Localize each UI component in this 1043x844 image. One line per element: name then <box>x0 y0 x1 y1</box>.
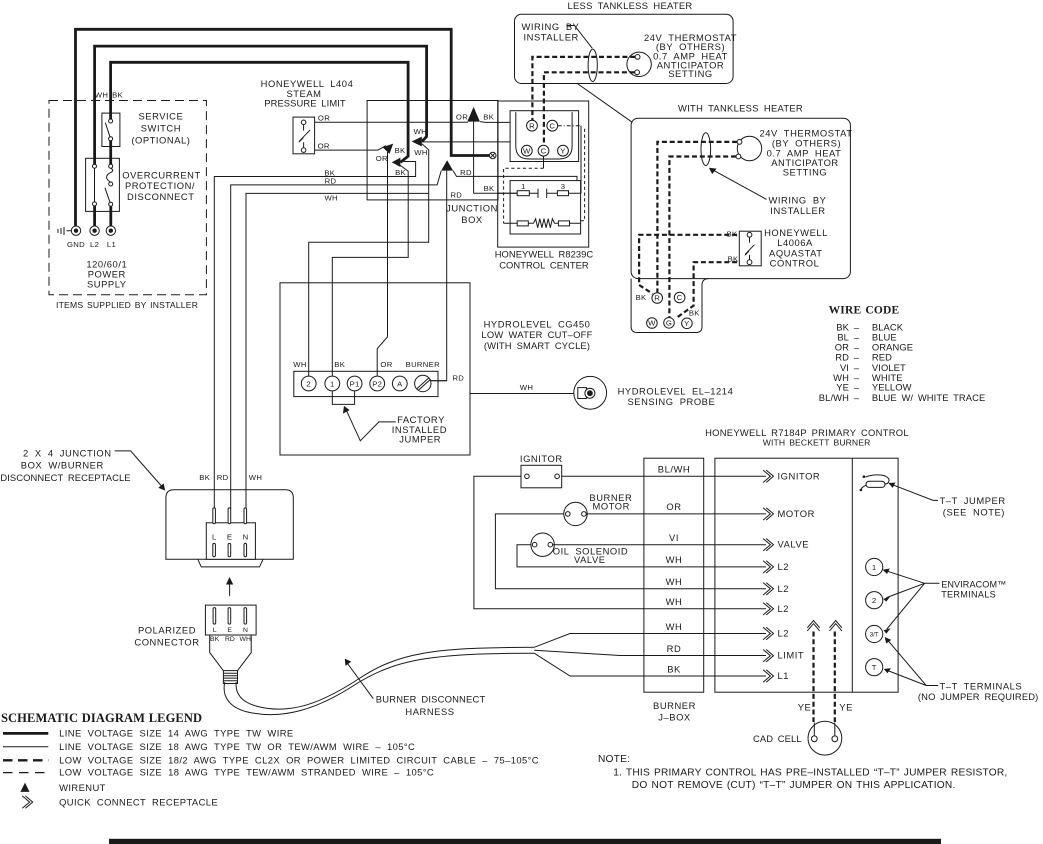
R8239C lower sub-box <box>510 181 580 234</box>
svg-text:C: C <box>549 121 555 130</box>
svg-text:RD: RD <box>325 177 337 186</box>
dashed internal loop left <box>504 168 544 223</box>
svg-text:L2: L2 <box>778 583 790 594</box>
svg-text:(OPTIONAL): (OPTIONAL) <box>131 134 190 145</box>
svg-text:MOTOR: MOTOR <box>778 508 815 519</box>
svg-text:LINE VOLTAGE SIZE 14 AWG TYPE: LINE VOLTAGE SIZE 14 AWG TYPE TW WIRE <box>59 727 294 738</box>
svg-text:Y: Y <box>684 319 689 328</box>
svg-text:BK: BK <box>689 308 700 317</box>
wire BK thick between boxes <box>109 141 112 165</box>
svg-text:BK: BK <box>334 360 345 369</box>
svg-text:SERVICE: SERVICE <box>138 111 183 122</box>
mounting flange <box>198 559 263 567</box>
aquastat switch symbol <box>745 237 755 259</box>
callout arrow to 2x4 box <box>115 451 162 486</box>
terminal Y <box>558 145 569 156</box>
svg-text:2: 2 <box>306 380 311 389</box>
svg-text:OR: OR <box>666 501 681 512</box>
connector taper <box>210 635 252 671</box>
T-T jumper callout <box>892 484 939 500</box>
svg-text:BL/WH: BL/WH <box>819 392 849 403</box>
harness callout arrow <box>348 664 374 699</box>
wire BK to R8239C lower <box>474 192 518 194</box>
thermostat circle <box>737 136 761 160</box>
wire OR upper from L404 <box>315 121 468 123</box>
svg-text:–: – <box>854 392 860 403</box>
aquastat L4006A box <box>739 231 761 266</box>
enviracom terminal 2 <box>866 592 883 609</box>
terminal C upper <box>547 120 558 131</box>
svg-text:QUICK CONNECT RECEPTACLE: QUICK CONNECT RECEPTACLE <box>59 796 218 807</box>
svg-text:P2: P2 <box>372 379 382 388</box>
svg-text:BK: BK <box>483 113 494 122</box>
wire BK to R8239C upper <box>480 121 510 124</box>
wire OR lower from L404 <box>315 146 386 151</box>
YE dashed wire right <box>834 632 836 723</box>
wire motor to WH row2 <box>495 514 766 589</box>
wirenut OR (left) <box>383 144 394 154</box>
T-T terminals callout <box>887 639 938 685</box>
svg-text:BK: BK <box>210 636 220 643</box>
svg-text:WH: WH <box>520 383 533 392</box>
terminal R <box>527 120 538 131</box>
thermostat terminal upper <box>635 55 640 60</box>
wire RD down right side to CG450 burner screw <box>431 171 447 381</box>
strain relief ribs <box>223 671 237 684</box>
wire BK thin down to CG450 terminal 1 <box>332 165 408 376</box>
svg-text:POLARIZED: POLARIZED <box>138 624 196 635</box>
svg-text:RD: RD <box>450 191 462 200</box>
svg-text:(NO JUMPER REQUIRED): (NO JUMPER REQUIRED) <box>918 691 1039 702</box>
svg-text:SENSING PROBE: SENSING PROBE <box>628 396 716 407</box>
svg-text:LINE VOLTAGE SIZE 18 AWG TYPE: LINE VOLTAGE SIZE 18 AWG TYPE TW OR TEW/… <box>59 741 415 752</box>
callout line to oval <box>567 26 593 49</box>
svg-text:1: 1 <box>872 563 877 572</box>
with-tankless rounded box with tab <box>631 118 850 278</box>
svg-text:PRESSURE LIMIT: PRESSURE LIMIT <box>264 98 346 109</box>
legend thick line sample <box>3 732 48 735</box>
svg-text:VALVE: VALVE <box>778 539 810 550</box>
svg-text:WH: WH <box>414 127 427 136</box>
svg-text:RED: RED <box>872 352 892 363</box>
less-tankless rounded box <box>515 14 734 83</box>
terminal R <box>652 293 663 304</box>
wire BL/WH row <box>562 475 766 477</box>
wirenut OR/BK (top) <box>467 107 480 122</box>
svg-text:WIRE CODE: WIRE CODE <box>829 305 900 317</box>
svg-text:YE: YE <box>839 702 853 713</box>
svg-text:BLUE W/ WHITE TRACE: BLUE W/ WHITE TRACE <box>872 392 985 403</box>
svg-text:CONTROL: CONTROL <box>770 258 820 269</box>
svg-text:WH: WH <box>95 90 108 99</box>
svg-text:L2: L2 <box>778 628 790 639</box>
wirenut BK <box>392 158 401 167</box>
resistor lower-left <box>517 221 528 226</box>
svg-text:N: N <box>243 533 249 542</box>
terminal row line <box>498 192 581 194</box>
terminal W <box>521 145 532 156</box>
svg-text:LOW WATER CUT–OFF: LOW WATER CUT–OFF <box>481 329 592 340</box>
svg-text:W: W <box>648 319 656 328</box>
svg-text:BK: BK <box>636 293 647 302</box>
capacitor <box>538 189 547 198</box>
harness fan to WH row4 <box>534 634 766 648</box>
svg-text:LOW VOLTAGE SIZE 18 AWG TYPE T: LOW VOLTAGE SIZE 18 AWG TYPE TEW/AWM STR… <box>59 767 434 778</box>
svg-text:WH: WH <box>293 360 306 369</box>
ground symbol <box>58 227 71 235</box>
sensing probe symbol <box>574 376 607 409</box>
svg-text:PROTECTION/: PROTECTION/ <box>125 180 195 191</box>
bottom separator bar <box>109 839 941 844</box>
wire BK thick upper run <box>111 62 409 162</box>
svg-text:3: 3 <box>561 182 566 191</box>
svg-text:L: L <box>213 627 217 634</box>
terminal W <box>647 318 658 329</box>
factory jumper bracket <box>332 391 354 404</box>
legend texts <box>59 727 539 807</box>
harness cable lower line <box>224 653 534 714</box>
R8239C upper terminal sub-box <box>510 111 578 162</box>
svg-text:L1: L1 <box>778 670 790 681</box>
svg-text:WITH BECKETT BURNER: WITH BECKETT BURNER <box>763 437 871 447</box>
svg-text:1. THIS PRIMARY CONTROL HAS PR: 1. THIS PRIMARY CONTROL HAS PRE–INSTALLE… <box>613 767 1007 778</box>
dashed internal loop right <box>581 129 585 221</box>
svg-text:BK: BK <box>667 663 681 674</box>
wire C lower stub <box>543 156 545 168</box>
terminal 1 <box>325 376 340 391</box>
wire BK thick L1 to overcurrent <box>109 206 112 227</box>
svg-text:NOTE:: NOTE: <box>598 754 630 765</box>
harness cable upper line <box>236 647 534 709</box>
svg-text:(WITH SMART CYCLE): (WITH SMART CYCLE) <box>484 340 590 351</box>
svg-text:CONNECTOR: CONNECTOR <box>134 636 199 647</box>
svg-text:HONEYWELL R8239C: HONEYWELL R8239C <box>495 249 594 260</box>
svg-text:N: N <box>243 627 248 634</box>
svg-text:T–T JUMPER: T–T JUMPER <box>940 495 1006 506</box>
wire VI row <box>553 544 766 546</box>
wire from wirenut down to BK lower <box>473 122 475 194</box>
overcurrent protection box <box>86 158 120 211</box>
svg-text:SUPPLY: SUPPLY <box>87 278 127 289</box>
quick connect up-chevrons <box>807 621 819 631</box>
thermostat terminal upper <box>737 140 742 145</box>
T-T jumper icon <box>865 475 889 484</box>
svg-text:BURNER: BURNER <box>653 700 696 711</box>
inset divider diagonal <box>577 84 632 123</box>
svg-text:CAD CELL: CAD CELL <box>753 733 802 744</box>
svg-text:A: A <box>397 380 403 389</box>
svg-text:SETTING: SETTING <box>668 68 712 79</box>
dashed aquastat wire to R <box>639 235 737 294</box>
note text <box>598 754 1007 791</box>
svg-text:OR: OR <box>456 113 468 122</box>
svg-text:YE: YE <box>798 702 812 713</box>
coil <box>534 219 555 228</box>
thermostat terminal lower <box>635 70 640 75</box>
wire WH thin to R8239C <box>422 141 510 143</box>
wire WH to probe <box>470 393 578 395</box>
svg-text:OR: OR <box>318 141 330 150</box>
dashed aquastat wire to G <box>676 262 737 318</box>
svg-text:RD: RD <box>460 168 472 177</box>
resistor 3 <box>557 191 568 196</box>
svg-text:G: G <box>666 318 672 327</box>
YE dashed wire left <box>812 632 814 723</box>
pressure limit L404 box <box>293 117 315 154</box>
terminal L2 <box>90 226 99 235</box>
service switch blade <box>105 123 110 137</box>
harness fan to BK row <box>534 653 766 676</box>
svg-text:LOW VOLTAGE SIZE 18/2 AWG TYPE: LOW VOLTAGE SIZE 18/2 AWG TYPE CL2X OR P… <box>59 754 539 765</box>
j-box wire labels <box>658 464 690 675</box>
svg-text:HYDROLEVEL EL–1214: HYDROLEVEL EL–1214 <box>618 385 734 396</box>
wire RD to burner screw <box>431 380 447 382</box>
terminal P1 <box>347 376 362 391</box>
overcurrent left pole <box>93 164 97 168</box>
svg-text:INSTALLER: INSTALLER <box>524 31 579 42</box>
terminal tab of with-tankless box <box>631 279 709 333</box>
internal wire down to terminal 3 <box>580 126 582 194</box>
wire OR thin down to CG450 P2 <box>377 152 387 376</box>
svg-text:BK: BK <box>199 473 210 482</box>
wirenut RD <box>441 160 453 170</box>
svg-text:LESS TANKLESS HEATER: LESS TANKLESS HEATER <box>567 0 692 11</box>
svg-text:WITH TANKLESS HEATER: WITH TANKLESS HEATER <box>678 103 803 114</box>
terminal A <box>392 376 407 391</box>
svg-text:GND: GND <box>67 240 85 249</box>
wire BK thin staple to 2x4 box <box>214 162 415 510</box>
svg-text:BOX W/BURNER: BOX W/BURNER <box>21 460 104 471</box>
terminal L1 <box>106 226 115 235</box>
polarized connector body <box>205 605 256 635</box>
service switch box <box>102 113 120 146</box>
terminal C <box>674 292 685 303</box>
field-wiring oval <box>701 133 711 166</box>
svg-text:L2: L2 <box>90 240 99 249</box>
burner motor circle <box>564 502 587 525</box>
svg-text:WH: WH <box>240 636 251 643</box>
svg-text:2: 2 <box>872 596 877 605</box>
wire WH thin to 2x4 box <box>246 193 429 509</box>
terminal G <box>664 318 675 329</box>
svg-text:E: E <box>227 627 232 634</box>
svg-text:SWITCH: SWITCH <box>141 123 181 134</box>
terminal 2 <box>301 376 316 391</box>
svg-text:RD: RD <box>452 373 464 382</box>
terminal 3/T <box>866 625 883 642</box>
service switch contacts <box>109 119 113 123</box>
svg-text:WH: WH <box>666 621 683 632</box>
wire solenoid to WH row1 <box>517 545 766 567</box>
svg-text:IGNITOR: IGNITOR <box>520 453 563 464</box>
svg-text:VALVE: VALVE <box>574 554 606 565</box>
callout arrow to oval <box>714 170 767 199</box>
svg-text:OR: OR <box>376 154 388 163</box>
terminal GND <box>71 226 80 235</box>
field-wiring oval <box>588 49 597 81</box>
terminal P2 <box>370 376 385 391</box>
svg-text:WH: WH <box>666 596 683 607</box>
lower row line <box>504 222 581 224</box>
svg-text:SETTING: SETTING <box>783 166 827 177</box>
wirenut WH <box>412 137 422 147</box>
svg-text:(SEE NOTE): (SEE NOTE) <box>943 506 1005 517</box>
legend thin dashed sample <box>3 772 48 774</box>
dash-dot from C to internal node <box>558 125 581 127</box>
svg-text:OVERCURRENT: OVERCURRENT <box>122 170 200 181</box>
svg-text:RD: RD <box>835 352 849 363</box>
svg-text:L1: L1 <box>107 240 116 249</box>
resistor lower-right <box>558 221 569 226</box>
svg-text:HYDROLEVEL CG450: HYDROLEVEL CG450 <box>484 318 591 329</box>
wire GND thick <box>76 29 490 227</box>
upper prongs <box>213 508 216 524</box>
legend quick connect symbol <box>22 796 32 808</box>
dashed wire to G <box>669 157 736 318</box>
overcurrent right pole breaker <box>109 164 113 168</box>
svg-text:WH: WH <box>249 473 262 482</box>
svg-text:TERMINALS: TERMINALS <box>941 589 996 599</box>
svg-text:WIRENUT: WIRENUT <box>59 782 106 793</box>
svg-text:RD: RD <box>217 473 229 482</box>
svg-text:LIMIT: LIMIT <box>778 650 805 661</box>
svg-text:L2: L2 <box>778 603 790 614</box>
svg-text:INSTALLER: INSTALLER <box>770 205 825 216</box>
svg-text:1: 1 <box>330 380 335 389</box>
svg-text:L: L <box>212 533 217 542</box>
svg-text:E: E <box>227 533 232 542</box>
terminal T <box>866 659 883 676</box>
svg-text:1: 1 <box>521 182 526 191</box>
enviracom terminal 1 <box>866 558 883 575</box>
svg-text:–: – <box>854 352 860 363</box>
oil solenoid circle <box>531 533 554 556</box>
lower prongs <box>213 543 216 556</box>
CG450 low water cut-off box <box>280 283 470 455</box>
svg-text:2 X 4 JUNCTION: 2 X 4 JUNCTION <box>23 447 112 458</box>
svg-text:BK: BK <box>395 168 406 177</box>
dashed wire to R <box>532 57 635 120</box>
crossed-circle connector <box>489 152 496 159</box>
svg-text:W: W <box>523 146 531 155</box>
dashed wire to C <box>544 72 635 145</box>
svg-text:OR: OR <box>380 360 392 369</box>
receptacle block <box>206 523 255 560</box>
terminal C lower <box>538 145 549 156</box>
cad cell circle <box>808 721 842 755</box>
svg-text:P1: P1 <box>350 379 360 388</box>
svg-text:ITEMS SUPPLIED BY INSTALLER: ITEMS SUPPLIED BY INSTALLER <box>56 300 198 310</box>
svg-text:WH: WH <box>666 554 683 565</box>
svg-text:BK: BK <box>112 90 123 99</box>
ignitor box <box>521 465 562 488</box>
L404 switch symbol <box>299 125 310 148</box>
thermostat circle <box>627 52 651 76</box>
svg-text:OR: OR <box>318 113 330 122</box>
dashed wire to R <box>657 142 737 293</box>
svg-text:WH: WH <box>414 148 427 157</box>
wire code entries <box>819 321 986 403</box>
wire ignitor to WH row3 <box>474 476 766 609</box>
R7184P main box <box>715 458 898 692</box>
connector slots <box>213 608 216 625</box>
svg-text:BK: BK <box>395 146 406 155</box>
harness fan to RD row <box>534 650 766 655</box>
terminal Y <box>682 318 693 329</box>
wire WH thick upper run <box>95 46 427 164</box>
items-supplied-by-installer dashed box <box>49 101 206 295</box>
svg-text:VI: VI <box>669 532 679 543</box>
svg-text:C: C <box>677 293 683 302</box>
svg-text:J–BOX: J–BOX <box>658 712 691 723</box>
svg-text:HARNESS: HARNESS <box>405 706 454 717</box>
svg-text:IGNITOR: IGNITOR <box>778 470 821 481</box>
resistor 1 <box>517 191 529 196</box>
jumper callout leader <box>347 411 396 441</box>
svg-text:T: T <box>872 663 877 672</box>
svg-text:ENVIRACOM™: ENVIRACOM™ <box>941 580 1006 590</box>
svg-text:BURNER DISCONNECT: BURNER DISCONNECT <box>376 693 486 704</box>
wire RD thin to R8239C <box>453 171 577 181</box>
svg-text:JUNCTION: JUNCTION <box>446 203 498 214</box>
legend thick dashed sample <box>3 759 48 761</box>
terminal strip <box>294 371 438 396</box>
svg-text:3/T: 3/T <box>870 632 879 639</box>
svg-text:BK: BK <box>484 184 495 193</box>
L404 contacts <box>301 120 306 125</box>
svg-text:MOTOR: MOTOR <box>593 500 630 511</box>
legend wirenut symbol <box>20 783 29 792</box>
wire OR row <box>586 513 766 515</box>
svg-text:WH: WH <box>666 576 683 587</box>
svg-text:L2: L2 <box>778 561 790 572</box>
svg-text:BURNER: BURNER <box>406 360 440 369</box>
svg-text:R: R <box>529 121 535 130</box>
svg-text:JUMPER: JUMPER <box>399 434 441 445</box>
svg-text:BL/WH: BL/WH <box>658 464 690 475</box>
enviracom callout <box>886 571 940 629</box>
svg-text:BOX: BOX <box>461 214 483 225</box>
rounded terminal carrier <box>516 112 572 159</box>
wire WH thick L2 to overcurrent <box>93 206 96 227</box>
legend thin line sample <box>3 746 48 748</box>
svg-text:RD: RD <box>225 636 235 643</box>
svg-text:WH: WH <box>324 194 337 203</box>
quick connect chevrons <box>763 470 773 682</box>
junction box <box>367 101 498 200</box>
svg-text:CONTROL CENTER: CONTROL CENTER <box>499 259 589 270</box>
svg-text:T–T TERMINALS: T–T TERMINALS <box>940 680 1023 691</box>
wire RD thin to 2x4 box <box>231 171 442 509</box>
svg-text:DISCONNECT: DISCONNECT <box>127 191 194 202</box>
wire WH thin down to CG450 terminal 2 <box>309 144 429 376</box>
up arrow <box>229 584 231 596</box>
svg-text:DO NOT REMOVE (CUT) “T–T” JUMP: DO NOT REMOVE (CUT) “T–T” JUMPER ON THIS… <box>632 780 956 791</box>
R8239C outer box <box>498 101 589 247</box>
svg-text:HONEYWELL R7184P PRIMARY CONTR: HONEYWELL R7184P PRIMARY CONTROL <box>705 427 909 438</box>
svg-text:C: C <box>541 146 547 155</box>
terminal column divider <box>851 458 853 692</box>
svg-text:R: R <box>654 294 660 303</box>
svg-text:Y: Y <box>560 146 565 155</box>
thermostat terminal lower <box>736 154 741 159</box>
burner screw terminal <box>415 375 431 391</box>
aquastat contacts <box>747 232 752 237</box>
svg-text:SCHEMATIC DIAGRAM LEGEND: SCHEMATIC DIAGRAM LEGEND <box>1 711 202 725</box>
terminal function labels <box>778 470 821 681</box>
burner j-box column <box>644 458 704 692</box>
svg-text:DISCONNECT RECEPTACLE: DISCONNECT RECEPTACLE <box>0 472 130 483</box>
